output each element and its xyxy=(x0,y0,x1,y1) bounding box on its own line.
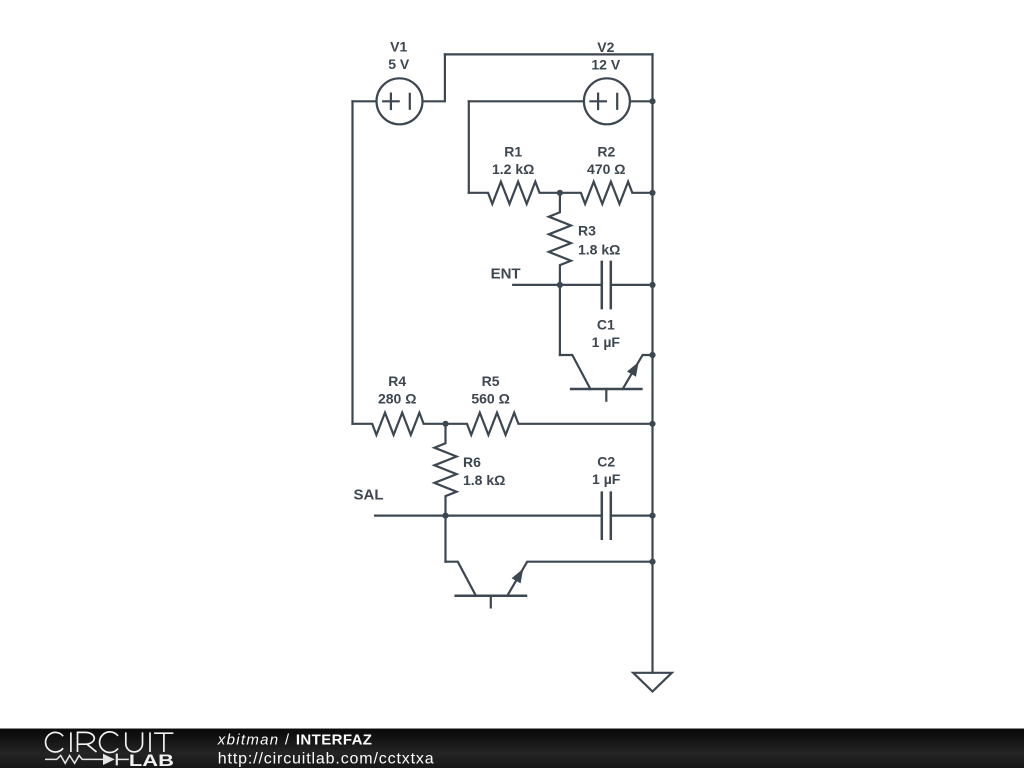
wire V2 left xyxy=(469,100,584,102)
node junction Q1E-rail xyxy=(649,352,655,358)
label R1 xyxy=(492,144,534,178)
svg-text:1.2 kΩ: 1.2 kΩ xyxy=(492,161,534,177)
svg-text:ENT: ENT xyxy=(491,265,521,282)
svg-text:R5: R5 xyxy=(482,373,500,389)
node junction Q2E-rail xyxy=(649,559,655,565)
svg-text:R3: R3 xyxy=(578,222,596,238)
svg-text:R6: R6 xyxy=(463,454,481,470)
svg-text:LAB: LAB xyxy=(129,751,174,768)
label R6 xyxy=(463,454,505,488)
label R3 xyxy=(578,222,620,257)
svg-text:http://circuitlab.com/cctxtxa: http://circuitlab.com/cctxtxa xyxy=(218,750,435,767)
node junction V2-rail xyxy=(649,98,655,104)
footer bar xyxy=(0,728,1024,768)
node junction R5-rail xyxy=(649,421,655,427)
resistor R2 xyxy=(560,182,653,204)
wire second riser xyxy=(468,101,470,193)
svg-text:C2: C2 xyxy=(597,453,615,469)
wire V1 left xyxy=(353,100,377,102)
logo resistor-diode squiggle xyxy=(45,754,129,766)
svg-text:V2: V2 xyxy=(597,39,614,55)
logo LAB text xyxy=(129,751,174,768)
label C2 xyxy=(592,453,621,487)
resistor R5 xyxy=(446,413,653,435)
svg-text:1 µF: 1 µF xyxy=(592,471,621,487)
ground xyxy=(633,673,672,692)
wire Q1 collector riser xyxy=(559,285,561,355)
svg-text:1.8 kΩ: 1.8 kΩ xyxy=(578,241,620,257)
svg-text:280 Ω: 280 Ω xyxy=(378,390,416,406)
wire V1 right riser xyxy=(423,54,445,101)
svg-text:1 µF: 1 µF xyxy=(592,334,621,350)
wire C2 right xyxy=(611,514,653,516)
wire V2 right xyxy=(630,100,652,102)
node junction R2-rail xyxy=(649,190,655,196)
node junction R4-R6 xyxy=(442,421,448,427)
resistor R1 xyxy=(469,182,560,204)
wire node ENT xyxy=(513,284,602,286)
label R5 xyxy=(471,373,509,407)
wire right rail xyxy=(651,54,653,672)
attribution url line 2 xyxy=(218,750,435,767)
resistor R4 xyxy=(353,413,446,435)
voltage source V1 xyxy=(377,78,423,124)
wire top rail xyxy=(445,53,653,55)
svg-text:12 V: 12 V xyxy=(591,56,620,72)
wire node SAL xyxy=(375,514,602,516)
svg-text:5 V: 5 V xyxy=(388,56,410,72)
label C1 xyxy=(592,316,621,350)
svg-text:C1: C1 xyxy=(597,316,615,332)
node junction R1-R3 xyxy=(557,190,563,196)
label V2 xyxy=(591,39,620,73)
node junction ENT-R3 xyxy=(557,282,563,288)
node junction C2-rail xyxy=(649,513,655,519)
logo CIRCUIT lettering xyxy=(46,732,174,753)
svg-text:SAL: SAL xyxy=(354,487,384,504)
transistor Q1 xyxy=(560,355,653,401)
label node ENT xyxy=(491,265,521,282)
capacitor C2 xyxy=(602,493,611,539)
wire C1 right xyxy=(611,284,653,286)
resistor R6 xyxy=(434,424,456,516)
wire Q2 collector riser xyxy=(444,516,446,562)
attribution line 1 xyxy=(217,732,373,749)
capacitor C1 xyxy=(602,262,611,308)
svg-text:V1: V1 xyxy=(390,38,407,54)
svg-text:1.8 kΩ: 1.8 kΩ xyxy=(463,472,505,488)
node junction SAL-R6 xyxy=(442,513,448,519)
wire left rail xyxy=(351,101,353,424)
svg-text:R1: R1 xyxy=(504,144,522,160)
transistor Q2 xyxy=(446,562,653,608)
resistor R3 xyxy=(549,193,571,285)
node junction C1-rail xyxy=(649,282,655,288)
svg-text:470 Ω: 470 Ω xyxy=(587,161,625,177)
label R4 xyxy=(378,373,416,407)
voltage source V2 xyxy=(584,78,630,124)
label R2 xyxy=(587,144,625,178)
svg-text:560 Ω: 560 Ω xyxy=(471,390,509,406)
label node SAL xyxy=(354,487,384,504)
label V1 xyxy=(388,38,410,72)
svg-text:R2: R2 xyxy=(597,144,615,160)
svg-text:xbitman / INTERFAZ: xbitman / INTERFAZ xyxy=(217,732,373,749)
svg-text:R4: R4 xyxy=(388,373,406,389)
